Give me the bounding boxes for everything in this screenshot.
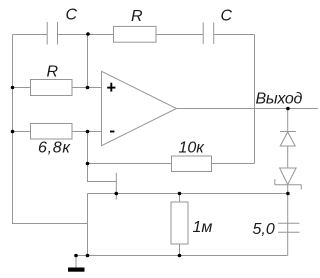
svg-text:5,0: 5,0: [253, 221, 275, 238]
svg-text:C: C: [221, 8, 233, 25]
svg-text:6,8к: 6,8к: [38, 140, 71, 157]
svg-text:1м: 1м: [193, 219, 213, 236]
svg-text:10к: 10к: [179, 140, 206, 157]
svg-text:Выход: Выход: [256, 91, 303, 108]
svg-text:R: R: [47, 64, 59, 81]
svg-text:R: R: [131, 8, 143, 25]
svg-text:C: C: [66, 7, 78, 24]
